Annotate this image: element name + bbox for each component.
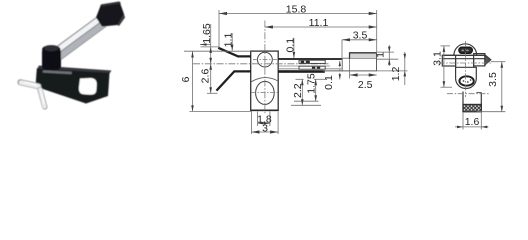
arm top plate — [278, 58, 342, 60]
upper pad row — [299, 60, 325, 63]
lobe oval — [459, 76, 473, 85]
dome slit window — [459, 47, 473, 53]
dim 15.8 left extension — [218, 10, 220, 47]
dim 0.1 dashed line — [339, 61, 341, 80]
upper circle centerline — [253, 59, 278, 61]
foot bottom ext — [477, 111, 505, 113]
svg-text:0.1: 0.1 — [323, 75, 335, 90]
lead tip level line — [201, 46, 220, 48]
arrows 0.1 dashed — [339, 61, 341, 66]
metal channel end edge — [341, 58, 343, 72]
arm top thin continuation — [342, 57, 350, 59]
arrows 1.65 — [209, 47, 212, 53]
arrows 1.8 — [258, 122, 264, 125]
left tab — [442, 55, 455, 66]
arrows 6 — [191, 52, 194, 58]
slider step — [350, 53, 377, 59]
svg-text:1.1: 1.1 — [223, 33, 235, 48]
svg-text:1: 1 — [374, 52, 386, 58]
slider right end edge — [376, 53, 378, 71]
1.1 stub line — [200, 44, 211, 46]
arrows 1 — [388, 47, 391, 53]
0.1 leader — [293, 38, 295, 58]
foot centerline — [447, 93, 490, 95]
belt bottom line — [442, 58, 485, 60]
hole in body — [79, 78, 97, 95]
dim 15.8 line — [219, 13, 377, 15]
dim 1.8 line — [258, 122, 270, 124]
lower lobe — [456, 67, 477, 88]
belt top line — [442, 54, 485, 56]
svg-text:0.1: 0.1 — [284, 38, 296, 53]
end view dimensions — [441, 46, 506, 130]
dim 3.5 line — [501, 62, 503, 112]
arrows 3 — [252, 130, 260, 133]
arrows 1.2 — [404, 54, 407, 60]
arrow 1.1 down — [231, 45, 234, 51]
svg-text:1.65: 1.65 — [201, 23, 213, 44]
stub tip ext — [491, 61, 505, 63]
dim 3 line — [252, 131, 279, 133]
vertical centerline of body — [264, 21, 266, 114]
foot step ledge — [476, 92, 481, 94]
svg-text:6: 6 — [180, 76, 192, 82]
raised top ext right — [377, 51, 394, 53]
lead wire lower — [40, 90, 45, 108]
svg-text:1.2: 1.2 — [390, 67, 402, 82]
svg-text:15.8: 15.8 — [286, 3, 307, 15]
svg-text:3: 3 — [262, 122, 268, 134]
actuator bar — [49, 18, 106, 62]
arm bottom thin right part — [323, 70, 377, 72]
dome — [454, 44, 477, 55]
arrows 3.5 end view — [501, 62, 504, 68]
svg-text:11.1: 11.1 — [309, 17, 329, 29]
dim 6 line — [192, 51, 194, 111]
dim 2.5 left ext — [349, 59, 351, 79]
dim right extension — [376, 10, 378, 53]
arrows 2.5 — [350, 73, 358, 76]
body top edge extension left — [184, 50, 251, 52]
horizontal axis centerline — [193, 63, 329, 65]
slider band bottom line — [350, 58, 376, 60]
ext line 101 — [294, 100, 319, 102]
svg-text:3.5: 3.5 — [353, 29, 368, 41]
dim 1.65/2.6 column — [210, 24, 212, 64]
arrows 1.75 — [314, 79, 317, 85]
arm slit line upper — [278, 65, 330, 67]
arrows 2.2 — [301, 79, 304, 85]
right cone — [485, 55, 491, 65]
arrowheads middle — [191, 12, 406, 134]
arrows 1.6 — [457, 126, 463, 129]
dim 1.75 line — [315, 79, 317, 101]
flag block on bar end — [96, 2, 125, 27]
lower lead tip level line — [207, 92, 218, 94]
arm bottom plate — [278, 70, 325, 73]
upper lead black — [218, 48, 251, 57]
dim 2.2 line — [301, 79, 303, 105]
arrows 3.5 — [342, 38, 350, 41]
dim 11.1 line — [265, 26, 377, 28]
ext lines below body — [251, 112, 253, 135]
arm top level ext right — [377, 58, 399, 60]
svg-text:2.6: 2.6 — [199, 69, 211, 84]
knob on body — [42, 45, 61, 70]
arm slit line lower — [278, 68, 342, 70]
lower obround hole — [256, 81, 275, 104]
dim 1.2 line — [404, 52, 406, 85]
exts below foot — [462, 112, 464, 130]
body outline side view — [251, 51, 279, 110]
arrows 3.1 — [443, 46, 446, 52]
svg-text:3.5: 3.5 — [487, 72, 499, 87]
svg-text:1.6: 1.6 — [465, 116, 480, 128]
arrow 0.1 leader — [293, 52, 296, 58]
dim 2.5 line — [350, 74, 377, 76]
svg-text:2.2: 2.2 — [292, 83, 304, 98]
obround centerline — [251, 91, 280, 93]
right stub — [474, 54, 485, 66]
body side edges — [455, 59, 457, 68]
arm bottom ext right — [376, 70, 408, 72]
dim 3.1 line — [443, 46, 445, 87]
arrows 2.6 — [209, 64, 212, 70]
arrow 1.1 stub — [200, 43, 207, 46]
foot sides — [462, 92, 464, 113]
foot hatch band — [463, 104, 481, 111]
end view centerlines — [465, 41, 467, 97]
svg-text:3.1: 3.1 — [432, 51, 444, 66]
sensor body — [36, 66, 112, 104]
dim 6 bottom ext / body bottom ext — [190, 110, 252, 112]
lead wire upper-left — [21, 82, 39, 86]
dim 1 line — [388, 45, 390, 66]
slider gray top band — [350, 54, 376, 59]
arrows 15.8 — [219, 12, 227, 15]
arrows 11.1 — [265, 25, 273, 28]
dim 3.1 exts — [441, 45, 451, 47]
dim 3.5 left ext — [341, 40, 343, 58]
lower lead black — [217, 71, 252, 90]
ext obround top — [296, 78, 304, 80]
lower pad row — [299, 66, 325, 69]
upper circle hole — [258, 52, 273, 67]
dim 1.1 extension — [231, 33, 233, 51]
ext obround bottom — [291, 104, 321, 106]
svg-text:2.5: 2.5 — [358, 79, 373, 91]
dim 1.6 line — [455, 126, 489, 128]
collar arc — [251, 78, 278, 82]
svg-text:1.75: 1.75 — [305, 73, 317, 94]
dim 3.5 line — [342, 39, 377, 41]
